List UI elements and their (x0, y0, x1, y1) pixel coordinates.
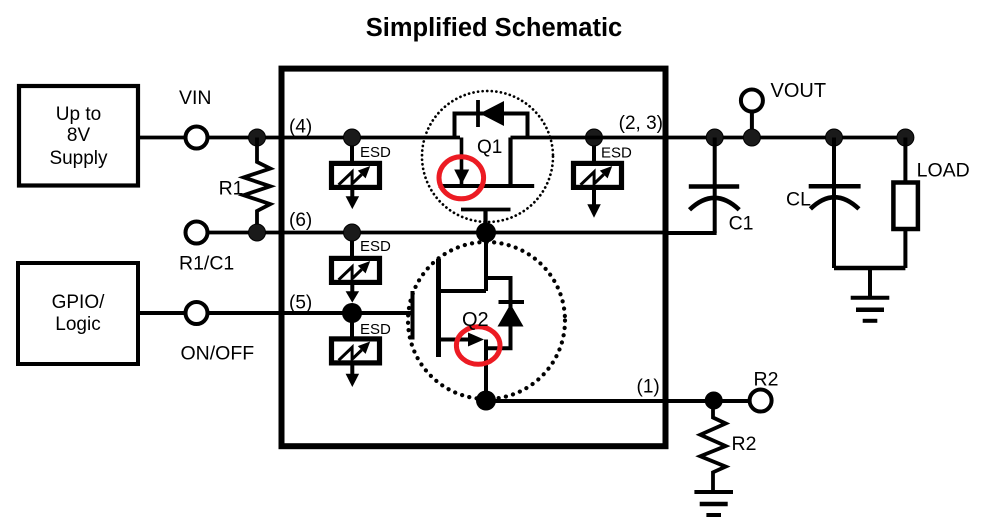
svg-text:Q2: Q2 (462, 309, 489, 331)
Q1 diode triangle (480, 101, 504, 126)
esd cell E2 on pin 6 net (332, 224, 392, 303)
title (366, 14, 623, 42)
Q2 source stem (484, 340, 488, 401)
node R2 junction (705, 392, 723, 410)
wire pin1 from Q2 source to R2 (486, 399, 748, 403)
Q2 diode cathode bar (499, 300, 525, 304)
ground right (851, 298, 890, 321)
supply box (19, 86, 138, 186)
svg-text:ON/OFF: ON/OFF (181, 343, 255, 365)
Q2 drain stem (484, 233, 488, 292)
svg-text:(6): (6) (289, 210, 312, 231)
resistor R1 (219, 138, 271, 233)
svg-text:CL: CL (786, 189, 811, 211)
Q1 source leg with arrow (460, 138, 464, 185)
svg-text:R2: R2 (732, 433, 757, 455)
label R1/C1 (179, 253, 234, 275)
Q1 gate stem (483, 210, 487, 233)
Q2 drain horizontal (441, 289, 486, 293)
transistor Q2 (408, 233, 565, 401)
Q2 source horizontal with arrow (441, 338, 470, 342)
wire VIN from supply to terminal (138, 136, 185, 140)
svg-text:GPIO/: GPIO/ (52, 292, 106, 313)
gpio box (18, 263, 138, 364)
svg-text:ESD: ESD (601, 145, 632, 162)
terminal ON/OFF (186, 302, 208, 324)
wire R1/C1 terminal to Q2 drain node (208, 231, 666, 235)
terminal VIN (186, 127, 208, 149)
label VOUT (771, 80, 827, 102)
Q2 channel bar (436, 259, 441, 357)
ground under R2 (694, 492, 733, 515)
svg-text:R2: R2 (754, 369, 779, 391)
node VIN/R1 junction (249, 129, 266, 146)
label (5) (289, 293, 312, 314)
Q1 body diode loop (455, 114, 528, 138)
Q2 diode triangle (498, 304, 524, 327)
Q2 dotted outline (408, 242, 565, 399)
label (2, 3) (619, 113, 663, 134)
svg-text:(1): (1) (637, 377, 660, 398)
svg-text:Up to: Up to (56, 104, 101, 125)
terminal VOUT (741, 90, 763, 138)
wire pin 2,3 net from Q1 drain to LOAD (511, 136, 906, 140)
svg-text:ESD: ESD (360, 321, 391, 338)
terminal R1/C1 (186, 222, 208, 244)
esd cell E3 on pin 5 net (332, 303, 392, 387)
wire ON/OFF from gpio to terminal (138, 311, 186, 315)
wire C1 bottom to IC (666, 231, 717, 235)
Q1 gate bar (461, 208, 511, 212)
node Q2 source (476, 391, 496, 411)
transistor Q1 (422, 91, 553, 233)
Q2 body diode branch (486, 278, 511, 348)
wire VIN terminal to Q1 source (208, 136, 460, 140)
svg-text:Logic: Logic (55, 314, 100, 335)
node VOUT junction (743, 129, 760, 146)
svg-text:Q1: Q1 (477, 137, 502, 158)
resistor LOAD (893, 129, 969, 268)
capacitor CL (786, 129, 861, 268)
Q1 channel bar (439, 184, 535, 188)
svg-text:C1: C1 (729, 213, 754, 235)
svg-text:8V: 8V (67, 125, 91, 146)
wire ON/OFF terminal to Q2 gate (208, 311, 413, 315)
Q1 dotted outline (422, 91, 553, 222)
ground stem right (868, 268, 872, 297)
svg-text:(5): (5) (289, 293, 312, 314)
svg-text:Supply: Supply (49, 148, 108, 169)
svg-text:VIN: VIN (179, 87, 212, 109)
svg-text:ESD: ESD (360, 144, 391, 161)
node R1C1 junction (249, 224, 266, 241)
terminal R2 (750, 390, 772, 412)
IC box (282, 69, 666, 447)
node Q1 gate / Q2 drain (476, 223, 496, 243)
resistor R2 (700, 401, 756, 492)
label (1) (637, 377, 660, 398)
Q1 diode cathode bar (476, 100, 480, 127)
esd cell E1 on pin 4 net (332, 129, 392, 209)
svg-text:(4): (4) (289, 117, 312, 138)
Q1 drain leg (508, 138, 512, 187)
svg-text:R1: R1 (219, 178, 244, 200)
label R2 terminal (754, 369, 779, 391)
label (4) (289, 117, 312, 138)
svg-text:Simplified Schematic: Simplified Schematic (366, 14, 623, 42)
Q1 red marker ring (439, 157, 484, 199)
label ON/OFF (181, 343, 255, 365)
svg-text:(2, 3): (2, 3) (619, 113, 663, 134)
Q2 gate bar (411, 291, 415, 340)
esd cell E4 on pin 2,3 net (574, 129, 633, 218)
svg-text:VOUT: VOUT (771, 80, 827, 102)
Q2 red marker ring (456, 327, 500, 365)
svg-text:LOAD: LOAD (917, 160, 970, 182)
label (6) (289, 210, 312, 231)
svg-text:ESD: ESD (360, 238, 391, 255)
capacitor C1 (689, 129, 754, 235)
svg-text:R1/C1: R1/C1 (179, 253, 234, 275)
label VIN (179, 87, 212, 109)
wire CL/LOAD bottom rail (834, 266, 905, 271)
